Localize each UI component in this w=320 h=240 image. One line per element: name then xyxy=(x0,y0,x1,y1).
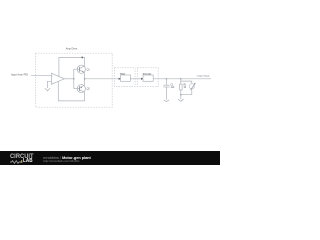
node C1 tap xyxy=(166,78,168,80)
ground (C1) xyxy=(164,100,169,102)
wire Q2 emitter to output node xyxy=(84,79,86,86)
svg-text:Q1: Q1 xyxy=(87,69,91,71)
wire voltmeter + terminal xyxy=(181,81,192,84)
wire voltmeter return xyxy=(181,89,192,95)
footer text line 1 xyxy=(43,157,90,161)
svg-text:Motor: Motor xyxy=(120,73,125,76)
net label on top rail xyxy=(82,57,84,59)
wire op-amp V+ supply to top rail xyxy=(59,57,85,76)
ground (op-amp input) xyxy=(45,88,50,91)
op-amp U1 xyxy=(51,73,64,84)
node R1 tap xyxy=(180,78,182,80)
CircuitLab logo xyxy=(10,154,34,161)
voltmeter V1 xyxy=(189,83,196,90)
svg-text:10: 10 xyxy=(184,87,187,89)
wire op-amp inverting input to ground xyxy=(48,81,52,88)
subsystem box Amp Drive (dashed) xyxy=(36,53,113,107)
wire generator to output xyxy=(153,78,211,80)
svg-text:1uF: 1uF xyxy=(171,87,176,89)
subsystem box Motor (dashed) xyxy=(115,68,136,87)
node R1 bottom junction xyxy=(180,94,182,96)
resistor R1 xyxy=(180,79,188,95)
footer text line 2 xyxy=(43,160,79,163)
wire Q1 emitter to output node xyxy=(84,72,86,78)
svg-text:Output voltage: Output voltage xyxy=(197,74,210,77)
node emitters junction xyxy=(84,78,86,80)
capacitor C1 xyxy=(163,79,175,100)
arrowhead into generator block xyxy=(141,78,143,80)
wire R1 to ground xyxy=(180,95,182,99)
wire base drive line xyxy=(73,69,75,88)
motor block M1 xyxy=(121,75,131,81)
svg-text:Generator: Generator xyxy=(143,73,152,76)
wire op-amp V- supply to bottom rail xyxy=(58,82,84,101)
arrowhead into motor block xyxy=(119,78,121,80)
wire motor to generator xyxy=(130,78,141,80)
wire output to motor block xyxy=(85,78,120,80)
subsystem box Generator (dashed) xyxy=(137,68,158,87)
transistor Q1 (NPN top) xyxy=(74,65,91,73)
svg-text:Input from PID: Input from PID xyxy=(11,73,28,77)
generator block G1 xyxy=(143,75,153,81)
wire input to op-amp + input xyxy=(31,74,51,76)
svg-text:Amp Drive: Amp Drive xyxy=(66,48,78,51)
svg-text:Q2: Q2 xyxy=(87,89,91,91)
ground (R1) xyxy=(178,99,183,101)
node at op-amp output xyxy=(73,78,75,80)
transistor Q2 (PNP bottom) xyxy=(74,85,91,93)
wire op-amp output to bases node xyxy=(64,78,73,80)
